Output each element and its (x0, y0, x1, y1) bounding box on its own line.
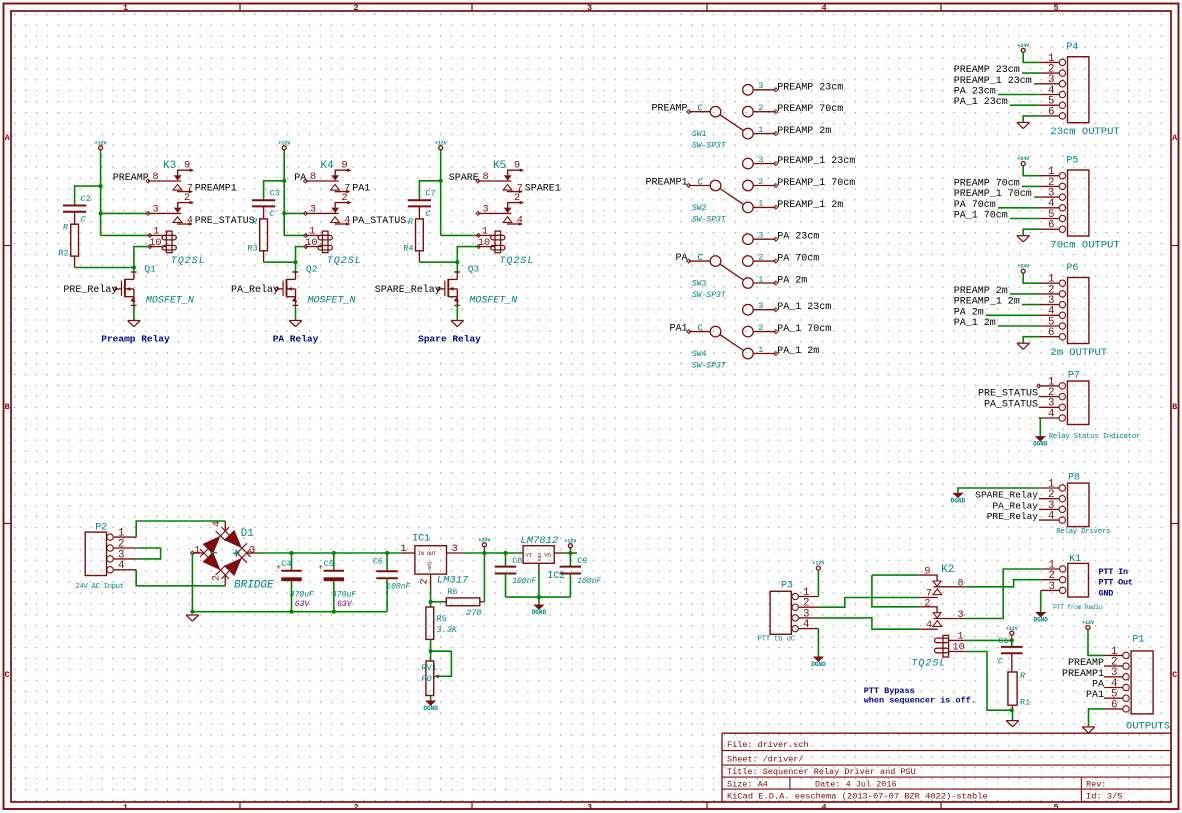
svg-text:Sheet: /driver/: Sheet: /driver/ (727, 754, 804, 764)
resistor R4 (403, 217, 423, 262)
svg-text:C1: C1 (998, 636, 1008, 646)
wire (431, 651, 452, 676)
svg-text:Q3: Q3 (468, 263, 480, 274)
svg-text:1: 1 (400, 543, 406, 555)
wire (441, 234, 479, 236)
label PA_Relay (231, 284, 279, 296)
power +12V at IC2 output (564, 538, 576, 551)
svg-text:PA_Relay: PA_Relay (231, 284, 279, 296)
svg-text:DGND: DGND (423, 705, 438, 712)
svg-text:9: 9 (342, 161, 348, 172)
svg-text:Date: 4 Jul 2016: Date: 4 Jul 2016 (815, 779, 897, 789)
svg-text:PA 70cm: PA 70cm (777, 254, 819, 265)
svg-text:R: R (408, 217, 414, 227)
svg-text:PA 2m: PA 2m (777, 276, 807, 287)
relay K4 TQ2SL (304, 160, 362, 267)
wire (965, 580, 1041, 587)
svg-text:4: 4 (187, 216, 193, 227)
label PA_STATUS (984, 399, 1038, 410)
wire (284, 234, 306, 236)
ground (1017, 343, 1030, 349)
junction (332, 610, 336, 614)
label SPARE1 (525, 184, 561, 195)
svg-text:2: 2 (758, 252, 763, 262)
capacitor C7 (408, 189, 436, 220)
junction (289, 551, 293, 555)
wire (419, 261, 457, 263)
capacitor C5 (318, 559, 356, 609)
wire (483, 553, 485, 602)
junction (99, 211, 103, 215)
label PA_1 70cm (954, 211, 1008, 222)
svg-text:2: 2 (758, 177, 763, 187)
svg-text:470uF: 470uF (290, 590, 314, 599)
potentiometer RV1 (422, 661, 439, 696)
power DGND (1033, 436, 1048, 448)
resistor R5 (426, 607, 458, 639)
note when sequencer is off. (864, 696, 976, 706)
wire (191, 553, 193, 612)
svg-text:4: 4 (821, 3, 826, 13)
junction (289, 610, 293, 614)
svg-text:PRE_STATUS: PRE_STATUS (195, 216, 255, 227)
svg-text:TQ2SL: TQ2SL (911, 659, 946, 670)
ground (289, 321, 302, 327)
wire (75, 267, 134, 269)
svg-text:2m OUTPUT: 2m OUTPUT (1050, 347, 1107, 359)
svg-text:PA 2m: PA 2m (954, 307, 984, 318)
wire (1023, 52, 1039, 62)
svg-text:2: 2 (212, 575, 223, 581)
svg-text:PRE_Relay: PRE_Relay (63, 284, 117, 296)
svg-text:3: 3 (249, 545, 255, 556)
label PA1 (669, 324, 687, 335)
junction (132, 265, 136, 269)
svg-text:3: 3 (310, 205, 316, 216)
wire (1034, 196, 1039, 198)
svg-text:DGND: DGND (1033, 617, 1048, 624)
svg-text:P6: P6 (1066, 263, 1078, 274)
switch SW2 SW-SP3T (687, 155, 778, 225)
svg-text:B: B (1172, 402, 1177, 412)
svg-text:SW3: SW3 (692, 280, 707, 289)
svg-text:PA_1 2m: PA_1 2m (954, 318, 996, 329)
wire (1011, 640, 1013, 646)
label PA_1 2m (954, 318, 996, 329)
wire (1010, 218, 1039, 220)
svg-text:3: 3 (958, 610, 964, 621)
svg-text:3: 3 (758, 155, 763, 165)
label SPARE_Relay (975, 490, 1038, 501)
wire (1023, 337, 1039, 343)
wire (75, 186, 101, 205)
svg-text:8: 8 (958, 578, 964, 589)
wire (430, 696, 432, 701)
label PA_1 2m (777, 346, 819, 357)
svg-text:+12V: +12V (1006, 626, 1018, 632)
label PRE_Relay (987, 511, 1039, 522)
wire (136, 570, 225, 586)
wire (1023, 166, 1039, 176)
label PREAMP (1068, 658, 1104, 669)
svg-text:3: 3 (587, 3, 592, 13)
label PREAMP_1 70cm (954, 189, 1032, 200)
svg-text:4: 4 (344, 216, 350, 227)
ground (451, 321, 464, 327)
power DGND (423, 701, 438, 713)
svg-text:B: B (5, 402, 10, 412)
svg-text:DGND: DGND (532, 609, 547, 616)
junction (455, 260, 459, 264)
svg-text:PA_Relay: PA_Relay (992, 500, 1038, 511)
label PREAMP (113, 173, 149, 184)
svg-text:C7: C7 (425, 189, 435, 199)
connector P6 (1039, 263, 1089, 344)
capacitor C4 (276, 559, 314, 609)
svg-text:SW4: SW4 (692, 350, 707, 359)
label PA 70cm (777, 254, 819, 265)
junction (282, 211, 286, 215)
svg-text:6: 6 (1048, 106, 1054, 118)
svg-text:+24V: +24V (1017, 43, 1029, 49)
svg-text:GND: GND (1099, 588, 1114, 598)
svg-text:100nF: 100nF (577, 577, 601, 586)
svg-text:+12V: +12V (812, 561, 824, 567)
connector P4 (1039, 42, 1089, 123)
power DGND (951, 493, 966, 505)
wire (283, 150, 285, 236)
svg-text:BRIDGE: BRIDGE (234, 580, 274, 592)
svg-text:K2: K2 (941, 564, 954, 576)
label PA_1 23cm (777, 302, 831, 313)
svg-text:A: A (1172, 133, 1178, 143)
wire (958, 488, 1039, 493)
svg-text:3: 3 (758, 231, 763, 241)
svg-text:10: 10 (953, 643, 965, 654)
svg-text:PA: PA (294, 173, 306, 184)
power +24V for P6 (1017, 264, 1029, 273)
wire (100, 150, 102, 236)
svg-text:4: 4 (821, 802, 826, 812)
svg-text:SPARE_Relay: SPARE_Relay (975, 490, 1038, 501)
svg-text:PREAMP 2m: PREAMP 2m (954, 286, 1008, 297)
svg-text:+12V: +12V (278, 140, 290, 146)
svg-text:R1: R1 (1020, 698, 1030, 708)
svg-text:R2: R2 (59, 249, 69, 259)
svg-text:DGND: DGND (811, 661, 826, 668)
svg-text:PA_1 2m: PA_1 2m (777, 346, 819, 357)
svg-text:PA1: PA1 (1086, 690, 1104, 701)
svg-text:SW1: SW1 (692, 130, 707, 139)
wire (386, 553, 388, 571)
svg-text:9: 9 (924, 567, 930, 578)
switch SW1 SW-SP3T (687, 81, 778, 151)
junction (332, 551, 336, 555)
wire (133, 305, 135, 320)
svg-text:C: C (270, 209, 276, 219)
svg-text:3: 3 (1049, 581, 1055, 593)
junction (482, 551, 486, 555)
svg-text:PREAMP 23cm: PREAMP 23cm (777, 82, 843, 93)
power DGND (811, 657, 826, 669)
svg-text:K3: K3 (163, 160, 176, 172)
svg-text:1: 1 (758, 199, 763, 209)
note GND (1099, 588, 1114, 598)
svg-text:9: 9 (184, 161, 190, 172)
label PA 23cm (954, 87, 996, 98)
svg-text:PREAMP_1 70cm: PREAMP_1 70cm (777, 178, 855, 189)
label PA 2m (954, 307, 984, 318)
note 23cm OUTPUT (1050, 126, 1119, 138)
svg-text:RV1: RV1 (422, 663, 437, 673)
wire (386, 578, 388, 611)
svg-text:P4: P4 (1066, 42, 1078, 53)
capacitor C8 (495, 556, 537, 586)
svg-text:TQ2SL: TQ2SL (171, 256, 206, 267)
wire (291, 581, 293, 612)
label PREAMP 23cm (954, 65, 1020, 76)
note Spare Relay (418, 334, 481, 345)
svg-text:VO: VO (544, 551, 551, 558)
wire (1034, 83, 1039, 85)
wire (998, 325, 1039, 327)
svg-text:C3: C3 (270, 189, 280, 199)
svg-text:C5: C5 (324, 559, 334, 569)
svg-text:OUTPUTS: OUTPUTS (1126, 721, 1170, 733)
label PRE_STATUS (195, 216, 255, 227)
svg-text:TQ2SL: TQ2SL (327, 256, 362, 267)
svg-text:PA 70cm: PA 70cm (954, 200, 996, 211)
wire (538, 570, 540, 597)
note PTT Out (1099, 578, 1133, 588)
svg-text:PA_STATUS: PA_STATUS (984, 399, 1038, 410)
junction (293, 260, 297, 264)
wire (1088, 630, 1104, 656)
connector P8 (1039, 472, 1089, 526)
svg-text:MOSFET_N: MOSFET_N (469, 295, 517, 306)
junction (429, 649, 433, 653)
svg-text:R: R (252, 217, 258, 227)
wire (101, 212, 148, 214)
svg-text:PA: PA (1092, 680, 1104, 691)
wire (464, 552, 524, 554)
svg-text:PTT Bypass: PTT Bypass (864, 686, 915, 696)
svg-text:C2: C2 (81, 194, 91, 204)
junction (537, 595, 541, 599)
svg-text:PRE_Relay: PRE_Relay (987, 511, 1039, 522)
svg-text:6: 6 (1048, 220, 1054, 232)
svg-text:C: C (698, 177, 704, 187)
wire (419, 181, 440, 200)
svg-text:100nF: 100nF (386, 583, 410, 592)
note 2m OUTPUT (1050, 347, 1107, 359)
connector P1 (1104, 635, 1153, 714)
svg-text:K5: K5 (493, 160, 506, 172)
svg-text:PREAMP1: PREAMP1 (1062, 669, 1104, 680)
svg-text:2: 2 (184, 193, 190, 204)
wire (1039, 418, 1041, 436)
svg-text:TQ2SL: TQ2SL (499, 256, 534, 267)
wire (965, 569, 1041, 619)
svg-text:P5: P5 (1066, 155, 1078, 166)
wire (456, 305, 458, 320)
wire (998, 207, 1039, 209)
capacitor C2 (63, 194, 91, 225)
label PREAMP1 (195, 184, 237, 195)
wire (1012, 710, 1014, 720)
resistor R2 (59, 223, 79, 268)
power DGND (532, 605, 547, 617)
junction (99, 184, 103, 188)
ground (128, 321, 141, 327)
junction (429, 600, 433, 604)
svg-text:2: 2 (353, 3, 358, 13)
note 24V AC Input (76, 583, 124, 591)
junction (385, 551, 389, 555)
svg-text:PREAMP_1 70cm: PREAMP_1 70cm (954, 189, 1032, 200)
ground (1006, 721, 1019, 727)
svg-text:C: C (1172, 670, 1177, 680)
svg-text:PREAMP 70cm: PREAMP 70cm (777, 104, 843, 115)
svg-text:LM7812: LM7812 (520, 535, 558, 547)
transistor Q3 MOSFET_N (437, 263, 518, 306)
wire (965, 639, 1012, 641)
svg-text:PA1: PA1 (352, 184, 370, 195)
svg-text:File: driver.sch: File: driver.sch (727, 740, 809, 750)
svg-text:C: C (698, 323, 704, 333)
svg-text:OUT: OUT (427, 550, 437, 557)
wire (1022, 304, 1039, 306)
svg-text:6: 6 (1111, 699, 1117, 711)
svg-text:8: 8 (483, 172, 489, 183)
junction (282, 179, 286, 183)
svg-text:1: 1 (758, 125, 763, 135)
svg-text:PREAMP_1 23cm: PREAMP_1 23cm (777, 156, 855, 167)
label PREAMP 70cm (954, 178, 1020, 189)
wire (264, 261, 296, 263)
svg-text:4: 4 (926, 620, 932, 631)
power +12V for K5 (435, 140, 447, 149)
svg-text:IC2: IC2 (547, 571, 565, 582)
svg-text:SPARE_Relay: SPARE_Relay (375, 284, 441, 296)
svg-text:C6: C6 (373, 556, 383, 566)
svg-text:+12V: +12V (564, 538, 576, 544)
svg-text:PTT to uC: PTT to uC (758, 636, 796, 644)
svg-text:PA_1 23cm: PA_1 23cm (954, 97, 1008, 108)
svg-text:PA: PA (675, 253, 687, 264)
ground (1017, 122, 1030, 128)
svg-text:C: C (698, 253, 704, 263)
svg-text:K1: K1 (1069, 554, 1081, 565)
label PA 70cm (954, 200, 996, 211)
label PREAMP 70cm (777, 104, 843, 115)
svg-text:2: 2 (353, 802, 358, 812)
wire (817, 629, 819, 657)
svg-text:C: C (425, 209, 431, 219)
svg-text:PREAMP 23cm: PREAMP 23cm (954, 65, 1020, 76)
svg-text:K4: K4 (321, 160, 335, 172)
note PTT Bypass (864, 686, 915, 696)
svg-text:PREAMP 2m: PREAMP 2m (777, 126, 831, 137)
power +12V for K3 (95, 140, 107, 149)
svg-text:when sequencer is off.: when sequencer is off. (864, 696, 976, 706)
note 70cm OUTPUT (1050, 240, 1119, 252)
svg-text:1: 1 (957, 632, 963, 643)
transistor Q1 MOSFET_N (113, 263, 194, 306)
svg-text:MOSFET_N: MOSFET_N (308, 295, 356, 306)
svg-text:LM317: LM317 (437, 575, 469, 587)
capacitor C1 (998, 636, 1023, 671)
svg-text:DGND: DGND (951, 497, 966, 504)
svg-text:DGND: DGND (1033, 441, 1048, 448)
label PA (675, 253, 687, 264)
svg-text:+12V: +12V (435, 140, 447, 146)
svg-text:IN: IN (418, 550, 425, 557)
svg-text:C9: C9 (577, 556, 587, 566)
relay K5 TQ2SL (476, 160, 534, 267)
label PA 2m (777, 276, 807, 287)
svg-text:PA1: PA1 (669, 324, 687, 335)
connector P3 (770, 581, 818, 635)
wire (998, 94, 1039, 96)
label PA_1 23cm (954, 97, 1008, 108)
svg-text:+12V: +12V (95, 140, 107, 146)
svg-text:P1: P1 (1132, 635, 1144, 646)
capacitor C6 (373, 556, 411, 591)
note PTT to uC (758, 636, 796, 644)
label PREAMP_1 23cm (777, 156, 855, 167)
switch SW4 SW-SP3T (687, 301, 778, 371)
svg-text:PTT Out: PTT Out (1099, 578, 1133, 588)
svg-text:2: 2 (758, 103, 763, 113)
svg-text:470uF: 470uF (332, 590, 356, 599)
label PA_Relay (992, 500, 1038, 511)
power +12V for P1 (1082, 620, 1094, 629)
svg-text:3: 3 (758, 81, 763, 91)
svg-text:8: 8 (153, 172, 159, 183)
wire (456, 262, 458, 272)
svg-text:R5: R5 (437, 614, 447, 624)
label PA (294, 173, 306, 184)
wire (295, 305, 297, 320)
wire (1010, 104, 1039, 106)
svg-text:5: 5 (1053, 3, 1058, 13)
svg-text:4: 4 (118, 560, 124, 572)
label PREAMP1 (645, 178, 687, 189)
wire (136, 548, 160, 559)
svg-text:C: C (81, 214, 87, 224)
svg-text:5: 5 (1053, 802, 1058, 812)
svg-text:A: A (5, 133, 11, 143)
svg-text:70cm OUTPUT: 70cm OUTPUT (1050, 240, 1119, 252)
wire (565, 552, 577, 554)
svg-text:SW-SP3T: SW-SP3T (692, 142, 727, 151)
label PREAMP_1 70cm (777, 178, 855, 189)
svg-text:100nF: 100nF (512, 577, 536, 586)
svg-text:C: C (5, 670, 10, 680)
svg-text:P2: P2 (95, 523, 107, 534)
svg-text:PA 23cm: PA 23cm (777, 232, 819, 243)
wire (101, 234, 150, 236)
svg-text:PTT In: PTT In (1099, 567, 1129, 577)
svg-text:PREAMP1: PREAMP1 (645, 178, 687, 189)
svg-text:R: R (1020, 671, 1026, 681)
power +24V for P4 (1017, 43, 1029, 52)
svg-text:+24V: +24V (1017, 264, 1029, 270)
wire (431, 601, 447, 603)
label PREAMP_1 2m (777, 200, 843, 211)
svg-text:PA 23cm: PA 23cm (954, 87, 996, 98)
